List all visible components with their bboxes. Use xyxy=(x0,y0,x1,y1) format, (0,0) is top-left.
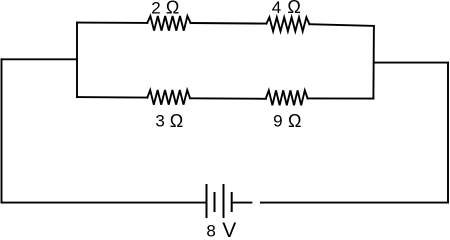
svg-text:Ω: Ω xyxy=(170,111,183,131)
wire: bottom wire right of battery (segment 1) xyxy=(232,202,252,204)
svg-text:V: V xyxy=(222,219,236,238)
battery V1 long plate 1 xyxy=(206,185,208,217)
svg-text:2: 2 xyxy=(151,0,160,17)
svg-text:Ω: Ω xyxy=(288,111,301,131)
wire: top branch right lead xyxy=(309,24,374,26)
wire: inner rectangle left vertical xyxy=(76,23,78,98)
resistor R2 4ohm zigzag xyxy=(266,17,309,31)
battery V1 short plate 2 xyxy=(231,193,233,211)
battery V1 short plate 1 xyxy=(214,193,216,211)
wire: outer top-right horizontal from inner rect xyxy=(374,62,448,64)
wire: bottom wire right of battery (segment 2) xyxy=(261,202,448,204)
svg-text:4: 4 xyxy=(272,0,281,17)
wire: outer top-left horizontal to inner rect xyxy=(2,58,78,60)
svg-text:9: 9 xyxy=(273,111,282,130)
svg-text:Ω: Ω xyxy=(287,0,300,17)
svg-text:Ω: Ω xyxy=(166,0,179,18)
svg-text:3: 3 xyxy=(155,112,164,131)
svg-text:8: 8 xyxy=(206,222,215,239)
wire: outer left vertical xyxy=(1,59,3,202)
wire: inner rectangle right vertical xyxy=(372,26,375,99)
resistor R3 3ohm zigzag xyxy=(147,90,190,105)
wire: outer right vertical xyxy=(447,63,449,203)
wire: bottom branch left lead xyxy=(77,96,147,99)
wire: top branch middle xyxy=(191,22,267,25)
wire: bottom branch right lead xyxy=(308,97,374,99)
wire: bottom wire left of battery xyxy=(2,202,207,204)
battery V1 long plate 2 xyxy=(223,185,225,217)
resistor R1 2ohm zigzag xyxy=(147,16,190,31)
wire: top branch left lead xyxy=(77,22,147,24)
wire: bottom branch middle xyxy=(190,97,266,100)
resistor R4 9ohm zigzag xyxy=(266,90,308,105)
